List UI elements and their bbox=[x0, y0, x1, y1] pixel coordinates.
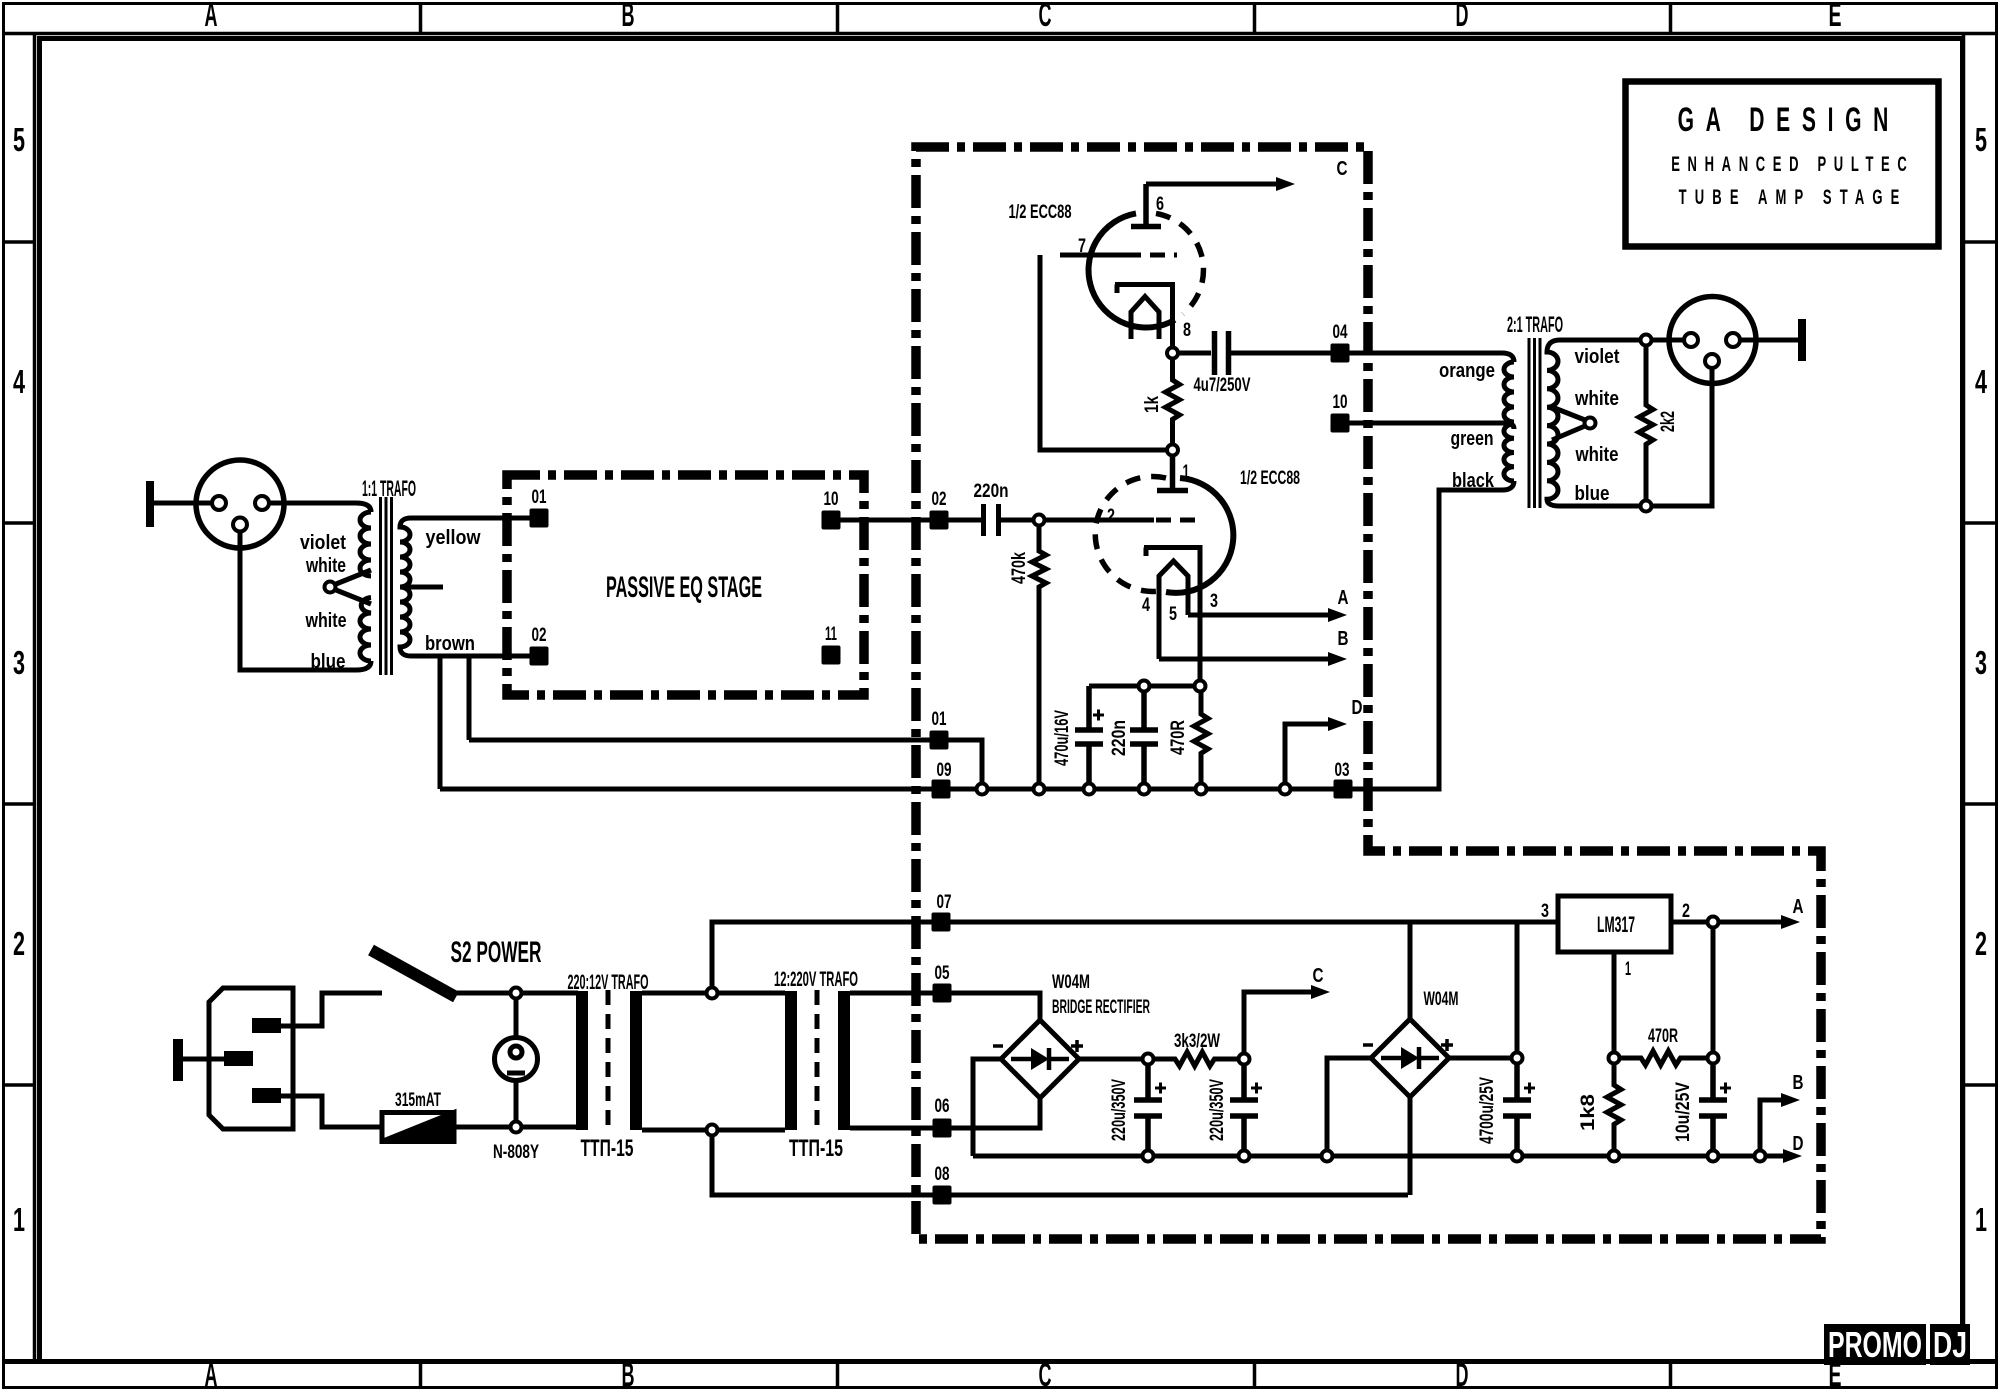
junction ring plate V2 bbox=[1167, 445, 1178, 456]
T1 core bbox=[381, 497, 392, 675]
arrow D (tube) bbox=[1328, 717, 1347, 731]
svg-text:3: 3 bbox=[1975, 644, 1987, 681]
svg-text:1: 1 bbox=[1975, 1201, 1987, 1238]
bridge rectifier W04M #2 bbox=[1371, 1019, 1449, 1097]
bridge rectifier W04M #1 bbox=[1001, 1020, 1079, 1098]
svg-text:2: 2 bbox=[13, 925, 25, 962]
bridge2 minus sign bbox=[1363, 1043, 1373, 1047]
pad 03 bbox=[1334, 780, 1353, 799]
pad 08 bbox=[933, 1186, 952, 1205]
wire XLR pin1 to ground bbox=[1740, 338, 1798, 343]
svg-text:B: B bbox=[622, 0, 635, 33]
junction ring 4700u top bbox=[1512, 1053, 1523, 1064]
svg-text:220n: 220n bbox=[974, 481, 1009, 502]
title block box bbox=[1626, 82, 1939, 247]
T1 primary center tap ring bbox=[325, 582, 336, 593]
T2 secondary center tap wires bbox=[1552, 407, 1585, 440]
svg-text:12:220V TRAFO: 12:220V TRAFO bbox=[774, 968, 858, 991]
wire bridge2 plus to ring bbox=[1449, 1056, 1517, 1061]
wire top branch up to 07 rail bbox=[712, 922, 1558, 993]
resistor 470k bbox=[1032, 526, 1046, 790]
bus wire (09/03 rail) bbox=[440, 481, 1514, 789]
tube V1 grid lead and dashes bbox=[1060, 253, 1126, 258]
svg-text:5: 5 bbox=[1169, 604, 1177, 625]
junction ring grid bbox=[1034, 515, 1045, 526]
wire 4u7 to pad 04 and T2 bbox=[1231, 353, 1514, 362]
plus sign 10u bbox=[1720, 1083, 1731, 1094]
XLR J2 pin 2 bbox=[1684, 333, 1698, 347]
T3 dashed separator bbox=[606, 990, 611, 1131]
junction ring 10u top bbox=[1708, 1053, 1719, 1064]
psu ground bus bbox=[973, 1154, 1786, 1159]
wire XLR pin3 down to blue bbox=[1652, 368, 1713, 506]
arrow A (psu) bbox=[1781, 915, 1800, 929]
svg-text:3k3/2W: 3k3/2W bbox=[1174, 1031, 1220, 1052]
wire brown branch down to bus bbox=[438, 656, 443, 789]
svg-text:orange: orange bbox=[1439, 360, 1495, 382]
svg-text:08: 08 bbox=[935, 1164, 950, 1185]
XLR J1 pin 3 bbox=[233, 518, 247, 532]
bus junction rings psu bbox=[1143, 1151, 1154, 1162]
XLR J2 pin 3 bbox=[1705, 354, 1719, 368]
frame right dividers bbox=[1964, 242, 1999, 1085]
wire XLR pin1 to T1 primary bbox=[269, 503, 371, 512]
bus junction rings right bbox=[1609, 1151, 1620, 1162]
tube V2 envelope (dashed arc) bbox=[1095, 476, 1166, 591]
wire ring to 4u7 bbox=[1178, 351, 1211, 356]
svg-text:blue: blue bbox=[1575, 483, 1610, 505]
junction ring bbox=[1195, 681, 1206, 692]
EQ pad 01 bbox=[530, 509, 549, 528]
wire to central pad 01 bbox=[469, 740, 982, 786]
capacitor 220n (input) bbox=[984, 504, 999, 536]
T1 primary center tap wires bbox=[336, 570, 371, 604]
svg-text:470R: 470R bbox=[1168, 720, 1189, 755]
pad 04 bbox=[1331, 344, 1350, 363]
frame top band line bbox=[2, 32, 1998, 36]
svg-text:04: 04 bbox=[1333, 322, 1348, 343]
arrow B bbox=[1328, 652, 1347, 666]
wire bridge1 minus to bus bbox=[973, 1059, 1001, 1156]
svg-text:A: A bbox=[1338, 587, 1349, 609]
plug pin E bbox=[224, 1051, 253, 1066]
svg-text:B: B bbox=[622, 1356, 635, 1391]
frame bottom band line bbox=[2, 1359, 1998, 1364]
svg-text:2: 2 bbox=[1975, 925, 1987, 962]
svg-text:315mAT: 315mAT bbox=[395, 1090, 441, 1111]
plus sign 470u bbox=[1093, 710, 1104, 721]
svg-text:220u/350V: 220u/350V bbox=[1207, 1079, 1228, 1141]
svg-text:violet: violet bbox=[1575, 346, 1620, 368]
svg-text:white: white bbox=[1575, 444, 1619, 466]
plug pin L bbox=[252, 1018, 281, 1033]
junction ring bottom (2k2) bbox=[1641, 501, 1652, 512]
svg-text:10u/25V: 10u/25V bbox=[1673, 1082, 1694, 1142]
svg-text:03: 03 bbox=[1335, 760, 1350, 781]
wire T4 sec top to bridge1 bbox=[850, 993, 1040, 1020]
wire bridge2 minus to bus bbox=[1327, 1058, 1371, 1151]
capacitor 4700u/25V bbox=[1503, 1064, 1531, 1151]
svg-text:C: C bbox=[1039, 1356, 1052, 1391]
arrow C (tube) bbox=[1276, 177, 1295, 191]
wire cathode caps rail bbox=[1089, 684, 1200, 689]
ground bar (output) bbox=[1798, 319, 1806, 361]
svg-text:D: D bbox=[1352, 697, 1363, 719]
svg-text:02: 02 bbox=[932, 489, 947, 510]
svg-text:4700u/25V: 4700u/25V bbox=[1477, 1077, 1498, 1144]
svg-text:1k8: 1k8 bbox=[1578, 1094, 1599, 1131]
svg-text:470k: 470k bbox=[1009, 552, 1030, 584]
wire ground to XLR bbox=[154, 501, 212, 506]
svg-text:D: D bbox=[1456, 1356, 1469, 1391]
svg-text:3: 3 bbox=[1210, 591, 1218, 612]
tube V2 envelope (solid arc) bbox=[1166, 478, 1233, 593]
svg-text:LM317: LM317 bbox=[1597, 912, 1635, 937]
tube V2 grid (dashed) bbox=[1156, 518, 1204, 523]
svg-text:A: A bbox=[1793, 896, 1804, 918]
svg-text:1/2 ECC88: 1/2 ECC88 bbox=[1240, 468, 1300, 489]
svg-text:A: A bbox=[205, 1356, 218, 1391]
junction ring cathode V1 bbox=[1167, 348, 1178, 359]
svg-text:1: 1 bbox=[13, 1201, 25, 1238]
svg-text:8: 8 bbox=[1183, 320, 1191, 341]
plus sign cap2 bbox=[1251, 1083, 1262, 1094]
svg-text:2: 2 bbox=[1107, 506, 1115, 527]
svg-text:yellow: yellow bbox=[426, 527, 481, 549]
capacitor 4u7/250V bbox=[1215, 331, 1229, 375]
ground bar (mains) bbox=[173, 1039, 183, 1081]
capacitor 220n (bypass) bbox=[1130, 692, 1158, 790]
svg-text:470R: 470R bbox=[1648, 1026, 1678, 1047]
bridge2 plus sign bbox=[1441, 1039, 1453, 1051]
svg-text:220u/350V: 220u/350V bbox=[1109, 1079, 1130, 1141]
svg-text:E: E bbox=[1829, 0, 1842, 33]
svg-text:DJ: DJ bbox=[1933, 1324, 1967, 1365]
wire bridge1 plus to ring bbox=[1079, 1057, 1142, 1062]
svg-text:ТТП-15: ТТП-15 bbox=[581, 1135, 634, 1162]
junction ring bbox=[1139, 681, 1150, 692]
tube V2 heater bbox=[1159, 561, 1188, 659]
T2 secondary tap ring bbox=[1585, 418, 1596, 429]
svg-text:B: B bbox=[1793, 1072, 1804, 1094]
svg-text:07: 07 bbox=[937, 892, 952, 913]
fuse 315mAT bbox=[382, 1113, 454, 1142]
wire C (plate out) bbox=[1146, 182, 1278, 187]
transformer T3 primary bar bbox=[576, 991, 588, 1130]
wire bottom branch down to 08 rail bbox=[712, 1130, 1408, 1195]
svg-text:05: 05 bbox=[935, 963, 950, 984]
pad 01 bbox=[930, 731, 949, 750]
pad 02 bbox=[930, 511, 949, 530]
svg-text:1k: 1k bbox=[1142, 396, 1163, 413]
junction ring T3 top bbox=[707, 988, 718, 999]
arrow D (psu) bbox=[1783, 1149, 1802, 1163]
wire T3 sec bottom to T4 pri bbox=[642, 1128, 785, 1133]
junction ring adj bbox=[1609, 1053, 1620, 1064]
svg-text:ENHANCED PULTEC: ENHANCED PULTEC bbox=[1671, 152, 1907, 176]
wire pad02 to 220n bbox=[949, 518, 982, 523]
arrow C (psu) bbox=[1311, 985, 1330, 999]
pad 09 bbox=[932, 780, 951, 799]
tube V2 cathode bbox=[1144, 548, 1200, 682]
svg-text:B: B bbox=[1338, 628, 1349, 650]
svg-text:S2 POWER: S2 POWER bbox=[451, 936, 542, 969]
resistor 3k3/2W bbox=[1154, 1052, 1239, 1066]
grid loop wire (pin7 to below 1k) bbox=[1040, 255, 1167, 450]
plug pin N bbox=[252, 1088, 281, 1103]
XLR J1 pin 1 bbox=[255, 496, 269, 510]
wire plug L to switch bbox=[281, 993, 382, 1026]
junction ring 3k3 left bbox=[1143, 1054, 1154, 1065]
tube V1 cathode bbox=[1115, 285, 1173, 348]
wire A (cathode out) bbox=[1188, 613, 1330, 618]
ground bar (input) bbox=[146, 481, 154, 527]
transformer T2 secondary winding bbox=[1547, 340, 1646, 506]
wire pin2 ring down to 10u bbox=[1711, 928, 1716, 1053]
wire pad10 to T2 green tap bbox=[1350, 423, 1515, 429]
svg-text:white: white bbox=[305, 555, 346, 577]
svg-text:4u7/250V: 4u7/250V bbox=[1194, 375, 1251, 396]
svg-text:2:1 TRAFO: 2:1 TRAFO bbox=[1507, 312, 1563, 337]
tube V1 envelope (dashed arc) bbox=[1156, 213, 1203, 314]
svg-text:5: 5 bbox=[13, 121, 25, 158]
XLR input connector J1 bbox=[196, 460, 284, 548]
wire EQ pad10 to central pad02 bbox=[841, 518, 979, 523]
svg-text:10: 10 bbox=[1333, 392, 1348, 413]
svg-text:1: 1 bbox=[1183, 462, 1190, 483]
wire switch to T3 bbox=[452, 991, 578, 996]
junction ring top (2k2) bbox=[1641, 335, 1652, 346]
mains plug outline bbox=[209, 988, 293, 1129]
wire LM317 pin2 out bbox=[1671, 920, 1784, 925]
plus sign 4700u bbox=[1524, 1083, 1535, 1094]
tube V1 heater bbox=[1131, 297, 1159, 340]
svg-text:3: 3 bbox=[13, 644, 25, 681]
bridge2 diode bbox=[1381, 1047, 1439, 1069]
transformer T3 secondary bar bbox=[630, 991, 642, 1130]
bridge1 plus sign bbox=[1071, 1040, 1083, 1052]
wire T3 sec top to T4 pri bbox=[642, 991, 785, 996]
lamp N-808Y bbox=[495, 1038, 538, 1081]
wire 220n to grid V2 bbox=[1001, 518, 1154, 523]
EQ pad 11 bbox=[822, 646, 841, 665]
EQ pad 10 bbox=[822, 511, 841, 530]
wire fuse to T3 bbox=[454, 1125, 578, 1130]
svg-text:D: D bbox=[1456, 0, 1469, 33]
svg-text:C: C bbox=[1337, 158, 1348, 180]
svg-text:PROMO: PROMO bbox=[1828, 1324, 1922, 1365]
transformer T2 2:1 primary winding upper bbox=[1504, 362, 1514, 422]
SCHEMATIC bbox=[146, 460, 530, 675]
svg-text:W04M: W04M bbox=[1052, 972, 1090, 993]
pad 07 bbox=[932, 913, 951, 932]
frame bottom dividers bbox=[421, 1362, 1671, 1389]
plus sign cap1 bbox=[1155, 1083, 1166, 1094]
frame left strip line bbox=[33, 34, 37, 1362]
svg-text:7: 7 bbox=[1078, 236, 1086, 257]
svg-text:brown: brown bbox=[425, 633, 475, 655]
T4 dashed separator bbox=[815, 990, 820, 1131]
transformer T2 2:1 primary winding lower bbox=[1504, 424, 1514, 481]
svg-text:black: black bbox=[1452, 470, 1495, 492]
svg-text:A: A bbox=[205, 0, 218, 33]
junction ring pin2 bbox=[1708, 917, 1719, 928]
svg-text:PASSIVE EQ STAGE: PASSIVE EQ STAGE bbox=[606, 571, 762, 604]
svg-text:violet: violet bbox=[300, 532, 346, 554]
svg-text:220:12V TRAFO: 220:12V TRAFO bbox=[568, 971, 649, 994]
svg-text:5: 5 bbox=[1975, 121, 1987, 158]
arrow A bbox=[1328, 608, 1347, 622]
junction ring 3k3 right bbox=[1239, 1054, 1250, 1065]
svg-text:1: 1 bbox=[1625, 959, 1631, 980]
svg-text:blue: blue bbox=[311, 651, 346, 673]
capacitor 220u/350V #2 bbox=[1230, 1065, 1258, 1151]
T1 secondary tap stub bbox=[402, 585, 443, 590]
svg-text:ТТП-15: ТТП-15 bbox=[789, 1135, 843, 1162]
svg-text:C: C bbox=[1039, 0, 1052, 33]
junction ring fuse bbox=[511, 1122, 522, 1133]
resistor 1k bbox=[1166, 359, 1180, 445]
XLR J2 pin 1 bbox=[1726, 333, 1740, 347]
wire B (heater out) bbox=[1159, 657, 1330, 662]
PROMO DJ logo bbox=[1824, 1324, 1970, 1365]
svg-text:C: C bbox=[1313, 965, 1324, 987]
transformer T4 primary bar bbox=[785, 991, 797, 1130]
capacitor 220u/350V #1 bbox=[1134, 1065, 1162, 1151]
svg-text:4: 4 bbox=[1142, 595, 1150, 616]
svg-text:10: 10 bbox=[824, 489, 839, 510]
svg-text:09: 09 bbox=[937, 760, 952, 781]
bridge1 minus sign bbox=[993, 1044, 1003, 1048]
transformer T1 secondary winding bbox=[400, 518, 530, 656]
svg-text:white: white bbox=[305, 610, 347, 632]
wire C arrow (psu) bbox=[1244, 992, 1313, 1054]
svg-text:BRIDGE RECTIFIER: BRIDGE RECTIFIER bbox=[1052, 997, 1150, 1018]
frame right strip line bbox=[1962, 34, 1966, 1362]
transformer T1 1:1 primary winding bbox=[360, 512, 371, 576]
lamp leads bbox=[514, 999, 519, 1122]
wire XLR pin3 down and right to T1 primary bottom bbox=[240, 532, 371, 671]
wire B branch bbox=[1760, 1100, 1784, 1151]
wire T4 sec bottom to bridge1 bbox=[850, 1098, 1040, 1128]
svg-text:6: 6 bbox=[1156, 194, 1164, 215]
frame top dividers bbox=[421, 3, 1671, 34]
lamp inner circle bbox=[510, 1046, 522, 1058]
EQ pad 02 bbox=[530, 647, 549, 666]
svg-text:2: 2 bbox=[1682, 901, 1690, 922]
resistor 1k8 bbox=[1607, 1064, 1621, 1151]
wire bridge2 top to rail bbox=[1408, 922, 1413, 1019]
wire plug N to fuse bbox=[281, 1096, 382, 1127]
wire brown branch to pad01 line bbox=[467, 656, 472, 740]
svg-text:01: 01 bbox=[532, 487, 547, 508]
wire LM317 pin1 down bbox=[1612, 952, 1617, 1053]
svg-text:4: 4 bbox=[1975, 363, 1987, 400]
pad 06 bbox=[933, 1119, 952, 1138]
svg-text:W04M: W04M bbox=[1424, 989, 1459, 1010]
wire ring to XLR out pin2 bbox=[1652, 338, 1685, 343]
capacitor 470u/16V bbox=[1075, 686, 1103, 789]
svg-text:02: 02 bbox=[532, 625, 547, 646]
svg-text:green: green bbox=[1451, 428, 1494, 450]
svg-text:N-808Y: N-808Y bbox=[493, 1142, 539, 1163]
switch S2 blade bbox=[371, 950, 456, 997]
resistor 2k2 bbox=[1639, 346, 1653, 501]
junction ring switch bbox=[511, 988, 522, 999]
svg-text:1:1 TRAFO: 1:1 TRAFO bbox=[362, 476, 416, 501]
amp stage dash-dot box bbox=[916, 147, 1821, 1239]
svg-text:01: 01 bbox=[932, 709, 947, 730]
resistor 470R (cathode) bbox=[1194, 692, 1208, 790]
svg-text:1/2 ECC88: 1/2 ECC88 bbox=[1009, 202, 1072, 223]
svg-text:470u/16V: 470u/16V bbox=[1052, 710, 1073, 766]
svg-text:3: 3 bbox=[1541, 901, 1549, 922]
frame left dividers bbox=[2, 242, 35, 1085]
wire D branch bbox=[1285, 724, 1331, 786]
arrow B (psu) bbox=[1781, 1093, 1800, 1107]
PASSIVE EQ STAGE box bbox=[507, 475, 864, 695]
tube V1 envelope (solid arc) bbox=[1089, 213, 1175, 327]
svg-text:GA DESIGN: GA DESIGN bbox=[1678, 100, 1889, 138]
tube V2 plate bbox=[1157, 456, 1188, 491]
lamp filament bar bbox=[507, 1071, 525, 1076]
pad 05 bbox=[933, 984, 952, 1003]
wire bridge2 bottom to 08 rail bbox=[1408, 1097, 1413, 1195]
resistor 470R (psu) bbox=[1620, 1051, 1708, 1065]
bridge1 diode bbox=[1011, 1048, 1069, 1070]
T2 core bbox=[1529, 338, 1540, 508]
wire rail down to 4700u bbox=[1515, 922, 1520, 1053]
regulator LM317 bbox=[1558, 896, 1671, 952]
capacitor 10u/25V bbox=[1699, 1064, 1727, 1151]
wire ground to plug bbox=[183, 1057, 224, 1062]
junction ring T3 bottom bbox=[707, 1125, 718, 1136]
svg-text:11: 11 bbox=[825, 624, 837, 645]
XLR J1 pin 2 bbox=[212, 496, 226, 510]
svg-text:220n: 220n bbox=[1109, 720, 1130, 756]
transformer T4 secondary bar bbox=[838, 991, 850, 1130]
svg-text:06: 06 bbox=[935, 1096, 950, 1117]
svg-text:2k2: 2k2 bbox=[1658, 411, 1679, 432]
svg-text:4: 4 bbox=[13, 363, 25, 400]
XLR output connector J2 bbox=[1669, 297, 1756, 384]
svg-text:white: white bbox=[1574, 388, 1619, 410]
tube V1 plate bbox=[1131, 184, 1161, 227]
bus junction rings bbox=[977, 784, 988, 795]
pad 10 bbox=[1331, 414, 1350, 433]
svg-text:D: D bbox=[1793, 1133, 1804, 1155]
